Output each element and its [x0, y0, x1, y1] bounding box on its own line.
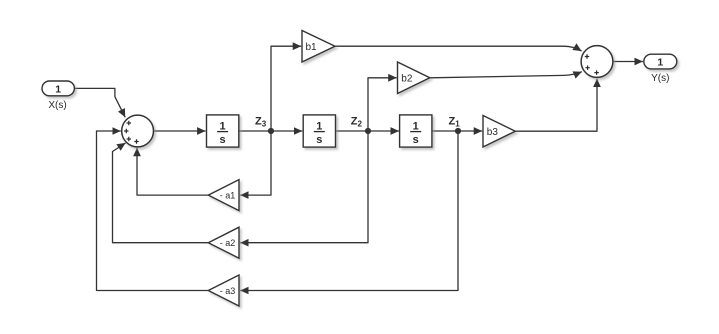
integrator I1 (1/s) — [207, 115, 239, 147]
wire node Z3 to integrator I2 — [271, 130, 302, 132]
gain -a3 triangle — [208, 275, 239, 306]
integrator I3 fraction bar — [410, 131, 421, 133]
svg-text:s: s — [316, 134, 322, 146]
svg-text:b1: b1 — [306, 42, 318, 53]
Sum2 plus sign (input from b3, 270 deg) — [594, 70, 598, 74]
svg-text:b2: b2 — [401, 74, 413, 85]
outport Y(s) oval — [644, 54, 677, 69]
svg-text:- a3: - a3 — [220, 286, 236, 296]
wire gain b2 to sum Sum2 — [430, 72, 582, 78]
sum junction Sum2 — [581, 46, 613, 78]
svg-text:Z3: Z3 — [255, 116, 267, 129]
wire integrator I1 to node Z3 — [239, 130, 271, 132]
svg-text:Y(s): Y(s) — [651, 73, 669, 84]
wire inport X(s) to sum Sum1 — [75, 88, 126, 117]
sum junction Sum1 — [122, 115, 154, 147]
gain b1 triangle — [302, 31, 335, 63]
node Z2 junction dot — [365, 128, 371, 134]
Sum1 plus sign (input from -a2, 225 deg) — [127, 137, 131, 141]
Sum2 plus sign (input from b2, 210 deg) — [585, 66, 589, 70]
node Z3 junction dot — [268, 128, 274, 134]
svg-text:Z1: Z1 — [449, 116, 461, 129]
svg-text:1: 1 — [413, 121, 419, 133]
wire Sum2 to outport Y(s) — [613, 61, 643, 63]
wire node Z1 down to gain -a3 — [240, 131, 458, 291]
wire node Z2 down to gain -a2 — [240, 131, 368, 243]
svg-text:s: s — [220, 134, 226, 146]
wire gain -a1 to sum Sum1 bottom — [137, 148, 208, 195]
gain -a2 triangle — [208, 227, 239, 258]
integrator I2 fraction bar — [314, 131, 325, 133]
Sum1 plus sign (input from X(s), 135 deg) — [127, 121, 131, 125]
Sum1 plus sign (input from -a3, 180 deg) — [124, 129, 128, 133]
gain b2 triangle — [398, 62, 430, 94]
svg-text:b3: b3 — [487, 127, 499, 138]
wire gain -a2 to sum Sum1 lower-left — [113, 143, 209, 243]
wire integrator I2 to node Z2 — [335, 130, 368, 132]
svg-text:1: 1 — [220, 121, 226, 133]
svg-text:1: 1 — [316, 121, 322, 133]
svg-text:- a1: - a1 — [220, 191, 236, 201]
Sum2 plus sign (input from b1, 150 deg) — [585, 54, 589, 58]
svg-text:1: 1 — [657, 56, 663, 68]
wire gain b3 up to sum Sum2 — [515, 79, 597, 132]
integrator I1 fraction bar — [217, 131, 228, 133]
wire node Z3 up to gain b1 — [271, 46, 301, 131]
wire node Z1 to gain b3 — [458, 130, 482, 132]
wire node Z2 to integrator I3 — [368, 130, 399, 132]
wire integrator I3 to node Z1 — [432, 130, 458, 132]
svg-text:1: 1 — [55, 83, 61, 95]
wire Sum1 to integrator I1 — [154, 130, 206, 132]
Sum1 plus sign (input from -a1, 270 deg) — [134, 139, 138, 143]
wire node Z2 up to gain b2 — [368, 78, 397, 131]
gain b3 triangle — [483, 116, 515, 148]
svg-text:X(s): X(s) — [48, 100, 66, 111]
gain -a1 triangle — [208, 180, 239, 211]
svg-text:s: s — [413, 134, 419, 146]
wire node Z3 down to gain -a1 — [240, 131, 271, 195]
svg-text:- a2: - a2 — [220, 238, 236, 248]
inport X(s) oval — [42, 81, 74, 96]
integrator I3 (1/s) — [400, 115, 432, 147]
wire gain b1 to sum Sum2 — [335, 46, 582, 51]
integrator I2 (1/s) — [303, 115, 335, 147]
wire gain -a3 to sum Sum1 left — [97, 131, 209, 291]
node Z1 junction dot — [455, 128, 461, 134]
svg-text:Z2: Z2 — [351, 116, 363, 129]
